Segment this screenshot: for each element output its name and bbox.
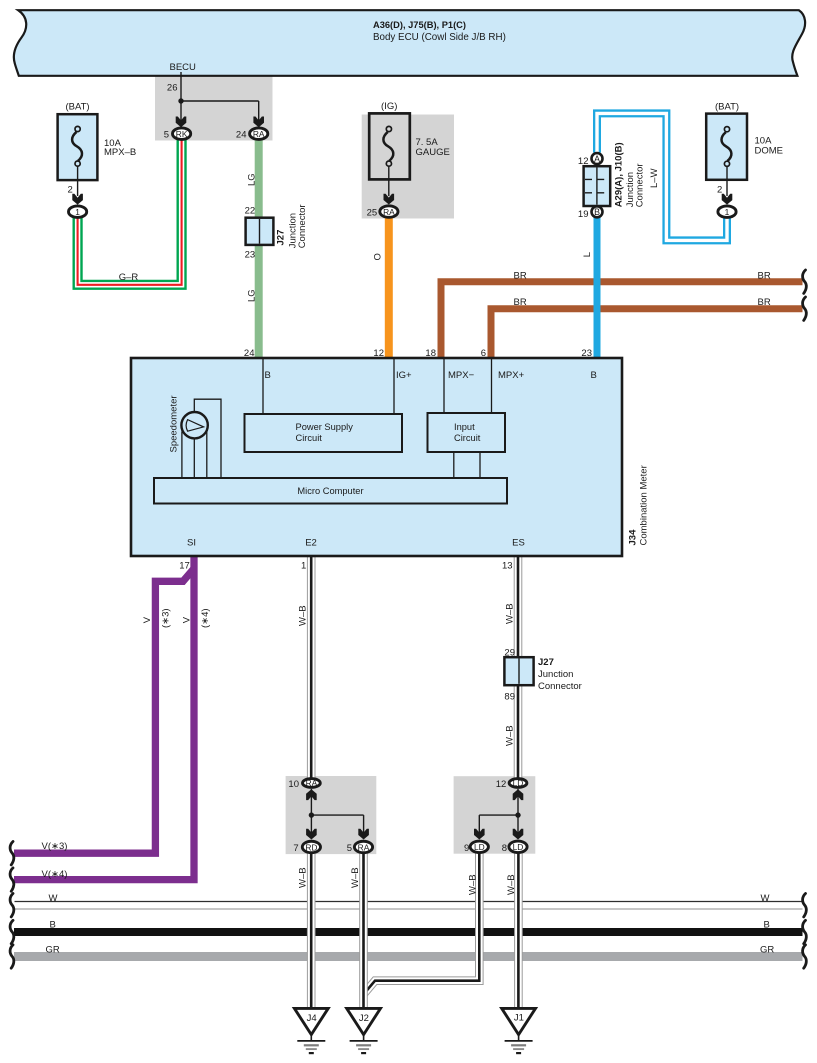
svg-text:MPX−: MPX− [448,370,475,381]
svg-text:GAUGE: GAUGE [416,147,450,158]
svg-text:V(∗3): V(∗3) [42,841,68,852]
svg-text:V(∗4): V(∗4) [42,869,68,880]
svg-text:Circuit: Circuit [454,433,481,443]
svg-text:MPX+: MPX+ [498,370,525,381]
connector group 12 LD / 9 LD / 8 LD [479,789,518,834]
junction node 26 [178,98,183,103]
svg-text:6: 6 [481,348,486,359]
wire W-B (meter ES pin 13 to J27 pin 29) [514,556,523,662]
svg-text:BR: BR [758,270,771,281]
connector pin 9 LD [470,841,488,853]
svg-text:19: 19 [578,209,589,220]
svg-text:Input: Input [454,422,475,432]
svg-text:J2: J2 [359,1013,369,1024]
svg-text:5: 5 [347,843,352,854]
break symbols left [10,842,14,865]
power supply circuit box [245,414,403,452]
svg-text:Connector: Connector [538,681,582,692]
connector pin 1 (MPX-B) [69,206,87,218]
svg-text:A29(A), J10(B): A29(A), J10(B) [613,142,624,207]
wire pin MPX+ to input circuit [491,359,493,413]
svg-text:(∗4): (∗4) [200,608,211,628]
wire O (gauge fuse to meter IG+) [385,217,393,358]
svg-text:J34: J34 [627,529,638,546]
svg-text:W–B: W–B [506,874,517,895]
svg-text:29: 29 [504,648,515,659]
svg-text:17: 17 [179,560,190,571]
svg-text:RD: RD [305,842,317,852]
connector pin 25 RA [380,206,398,218]
svg-text:B: B [50,920,56,931]
svg-text:J1: J1 [514,1013,524,1024]
wire pin B to power supply [262,359,264,414]
svg-text:W–B: W–B [468,874,479,895]
wire speedometer to micro computer [181,432,183,478]
svg-text:Connector: Connector [634,163,645,207]
svg-text:(∗3): (∗3) [161,608,172,628]
connector pin 10 RA [303,779,321,788]
bus GR [14,952,803,961]
svg-text:W–B: W–B [505,725,516,746]
svg-text:8: 8 [502,843,507,854]
wire speedometer bracket [194,399,221,477]
svg-text:Power Supply: Power Supply [296,422,354,432]
combination meter J34 box [131,358,622,556]
wire V(*3) branch [14,569,194,854]
svg-text:9: 9 [464,843,469,854]
svg-text:BECU: BECU [170,62,197,73]
svg-text:1: 1 [725,207,730,217]
svg-text:26: 26 [167,83,178,94]
wire input circuit to micro computer [453,452,455,478]
svg-text:B: B [591,370,597,381]
svg-text:A: A [594,154,600,164]
svg-text:G–R: G–R [119,272,139,283]
connector pin 8 LD [509,841,527,853]
svg-text:SI: SI [187,538,196,549]
svg-text:GR: GR [760,945,774,956]
wire pin MPX- to input circuit [443,359,445,413]
svg-text:W–B: W–B [297,867,308,888]
svg-text:LD: LD [513,842,524,852]
connector pin 12 LD [509,779,527,788]
svg-text:LG: LG [246,289,257,302]
ground J4 [294,1008,328,1053]
svg-text:12: 12 [373,348,384,359]
bus W [15,901,803,903]
svg-text:J4: J4 [307,1013,317,1024]
svg-text:18: 18 [425,348,436,359]
speedometer dial [181,412,207,438]
fuse 7.5A GAUGE [369,113,410,179]
wire G-R (fuse MPX-B to meter pin 5) [78,139,182,285]
wire L-W (DOME fuse to junction A) [597,113,727,240]
svg-text:Circuit: Circuit [296,433,323,443]
svg-text:5: 5 [164,130,169,141]
svg-text:ES: ES [512,538,525,549]
wire W-B (7 RD to J4 ground) [307,853,316,1009]
wire W-B (8 LD to J1 ground) [514,853,523,1009]
pin B [592,206,603,217]
svg-text:W–B: W–B [297,605,308,626]
svg-text:V: V [142,616,153,623]
pin A [592,153,603,164]
svg-text:7: 7 [293,843,298,854]
svg-text:RA: RA [358,842,370,852]
ground J2 [347,1008,381,1053]
svg-text:A36(D), J75(B), P1(C): A36(D), J75(B), P1(C) [373,20,466,30]
svg-text:23: 23 [581,348,592,359]
svg-text:MPX–B: MPX–B [104,147,136,158]
junction connector J27 (W-B) [504,657,533,685]
connector pin 1 (DOME) [718,206,736,218]
shaded region BECU connectors [155,76,273,141]
svg-text:23: 23 [245,250,256,261]
svg-text:BR: BR [758,297,771,308]
svg-text:24: 24 [236,130,247,141]
svg-text:V: V [181,616,192,623]
svg-text:Junction: Junction [538,669,573,680]
svg-text:B: B [764,920,770,931]
wire W-B (J27 pin 89 to 12 LD) [514,681,523,778]
svg-text:J27: J27 [276,230,287,246]
ground J1 [502,1008,536,1053]
svg-text:25: 25 [367,207,378,218]
svg-text:RA: RA [253,129,265,139]
break symbols right [803,270,807,293]
fuse 10A DOME [706,114,747,180]
svg-text:W–B: W–B [505,603,516,624]
wire pin IG+ to power supply [393,359,395,414]
svg-text:24: 24 [244,348,255,359]
shaded region LD connectors [454,776,536,854]
svg-text:BR: BR [514,270,527,281]
svg-text:Combination Meter: Combination Meter [638,465,649,545]
svg-text:10: 10 [288,779,299,790]
wire LG (pin 24 to meter pin 24) [255,139,263,358]
speedometer needle [186,420,203,432]
svg-text:2: 2 [717,184,722,195]
Body ECU banner A36(D) J75(B) P1(C) [14,10,805,76]
svg-text:RA: RA [383,207,395,217]
svg-text:LG: LG [246,173,257,186]
svg-text:LD: LD [474,842,485,852]
svg-text:(BAT): (BAT) [715,102,739,113]
svg-text:22: 22 [245,206,256,217]
bus B [14,928,803,936]
svg-text:RA: RA [306,778,318,788]
svg-text:W–B: W–B [350,867,361,888]
fuse 10A MPX-B [58,114,98,180]
svg-text:13: 13 [502,560,513,571]
svg-text:Connector: Connector [297,204,308,248]
wire BR MPX+ [491,309,803,358]
svg-text:2: 2 [68,184,73,195]
svg-text:W: W [761,893,770,904]
svg-text:12: 12 [578,156,589,167]
svg-text:(BAT): (BAT) [65,102,89,113]
shaded region IG fuse [362,115,454,219]
svg-text:BR: BR [514,297,527,308]
connector pin 7 RD [302,841,320,853]
connector pin 24 RA [250,128,268,140]
connector pin 5 RK [173,128,191,140]
wire BR MPX- [441,282,803,358]
input circuit box [428,413,506,452]
svg-text:Micro Computer: Micro Computer [297,486,363,496]
svg-text:(IG): (IG) [381,101,397,112]
wire BECU stem and branch [181,72,259,122]
junction connector A29(A) J10(B) [584,166,611,206]
svg-text:DOME: DOME [755,146,784,157]
svg-text:O: O [373,253,384,260]
junction connector J27 (LG) [246,218,274,245]
svg-text:LD: LD [513,778,524,788]
svg-text:GR: GR [46,945,60,956]
wire V(*4) (meter SI pin 17 to left break) [14,556,194,880]
connector group 10 RA / 7 RD / 5 RA [311,789,363,834]
svg-text:1: 1 [301,560,306,571]
svg-text:1: 1 [75,207,80,217]
shaded region RA/RD connectors [286,776,377,854]
wire W-B (meter E2 pin 1 to 10 RA) [307,556,316,778]
svg-text:12: 12 [496,779,507,790]
svg-text:J27: J27 [538,657,554,668]
wire W-B (9 LD to J2 ground, drawn first) [364,853,480,994]
svg-text:B: B [265,370,271,381]
svg-text:L–W: L–W [649,168,660,188]
svg-text:Body ECU (Cowl Side J/B RH): Body ECU (Cowl Side J/B RH) [373,32,506,43]
micro computer box [154,478,507,504]
svg-text:RK: RK [176,129,188,139]
svg-text:L: L [582,252,593,257]
wire L (junction B to meter pin 23) [594,217,601,358]
connector pin 5 RA [354,841,372,853]
svg-text:B: B [594,207,600,217]
svg-text:E2: E2 [305,538,317,549]
svg-text:89: 89 [504,692,515,703]
wire W-B (5 RA to J2 ground) [359,853,368,1009]
svg-text:IG+: IG+ [396,370,412,381]
svg-text:Speedometer: Speedometer [169,395,180,452]
svg-text:W: W [49,893,58,904]
